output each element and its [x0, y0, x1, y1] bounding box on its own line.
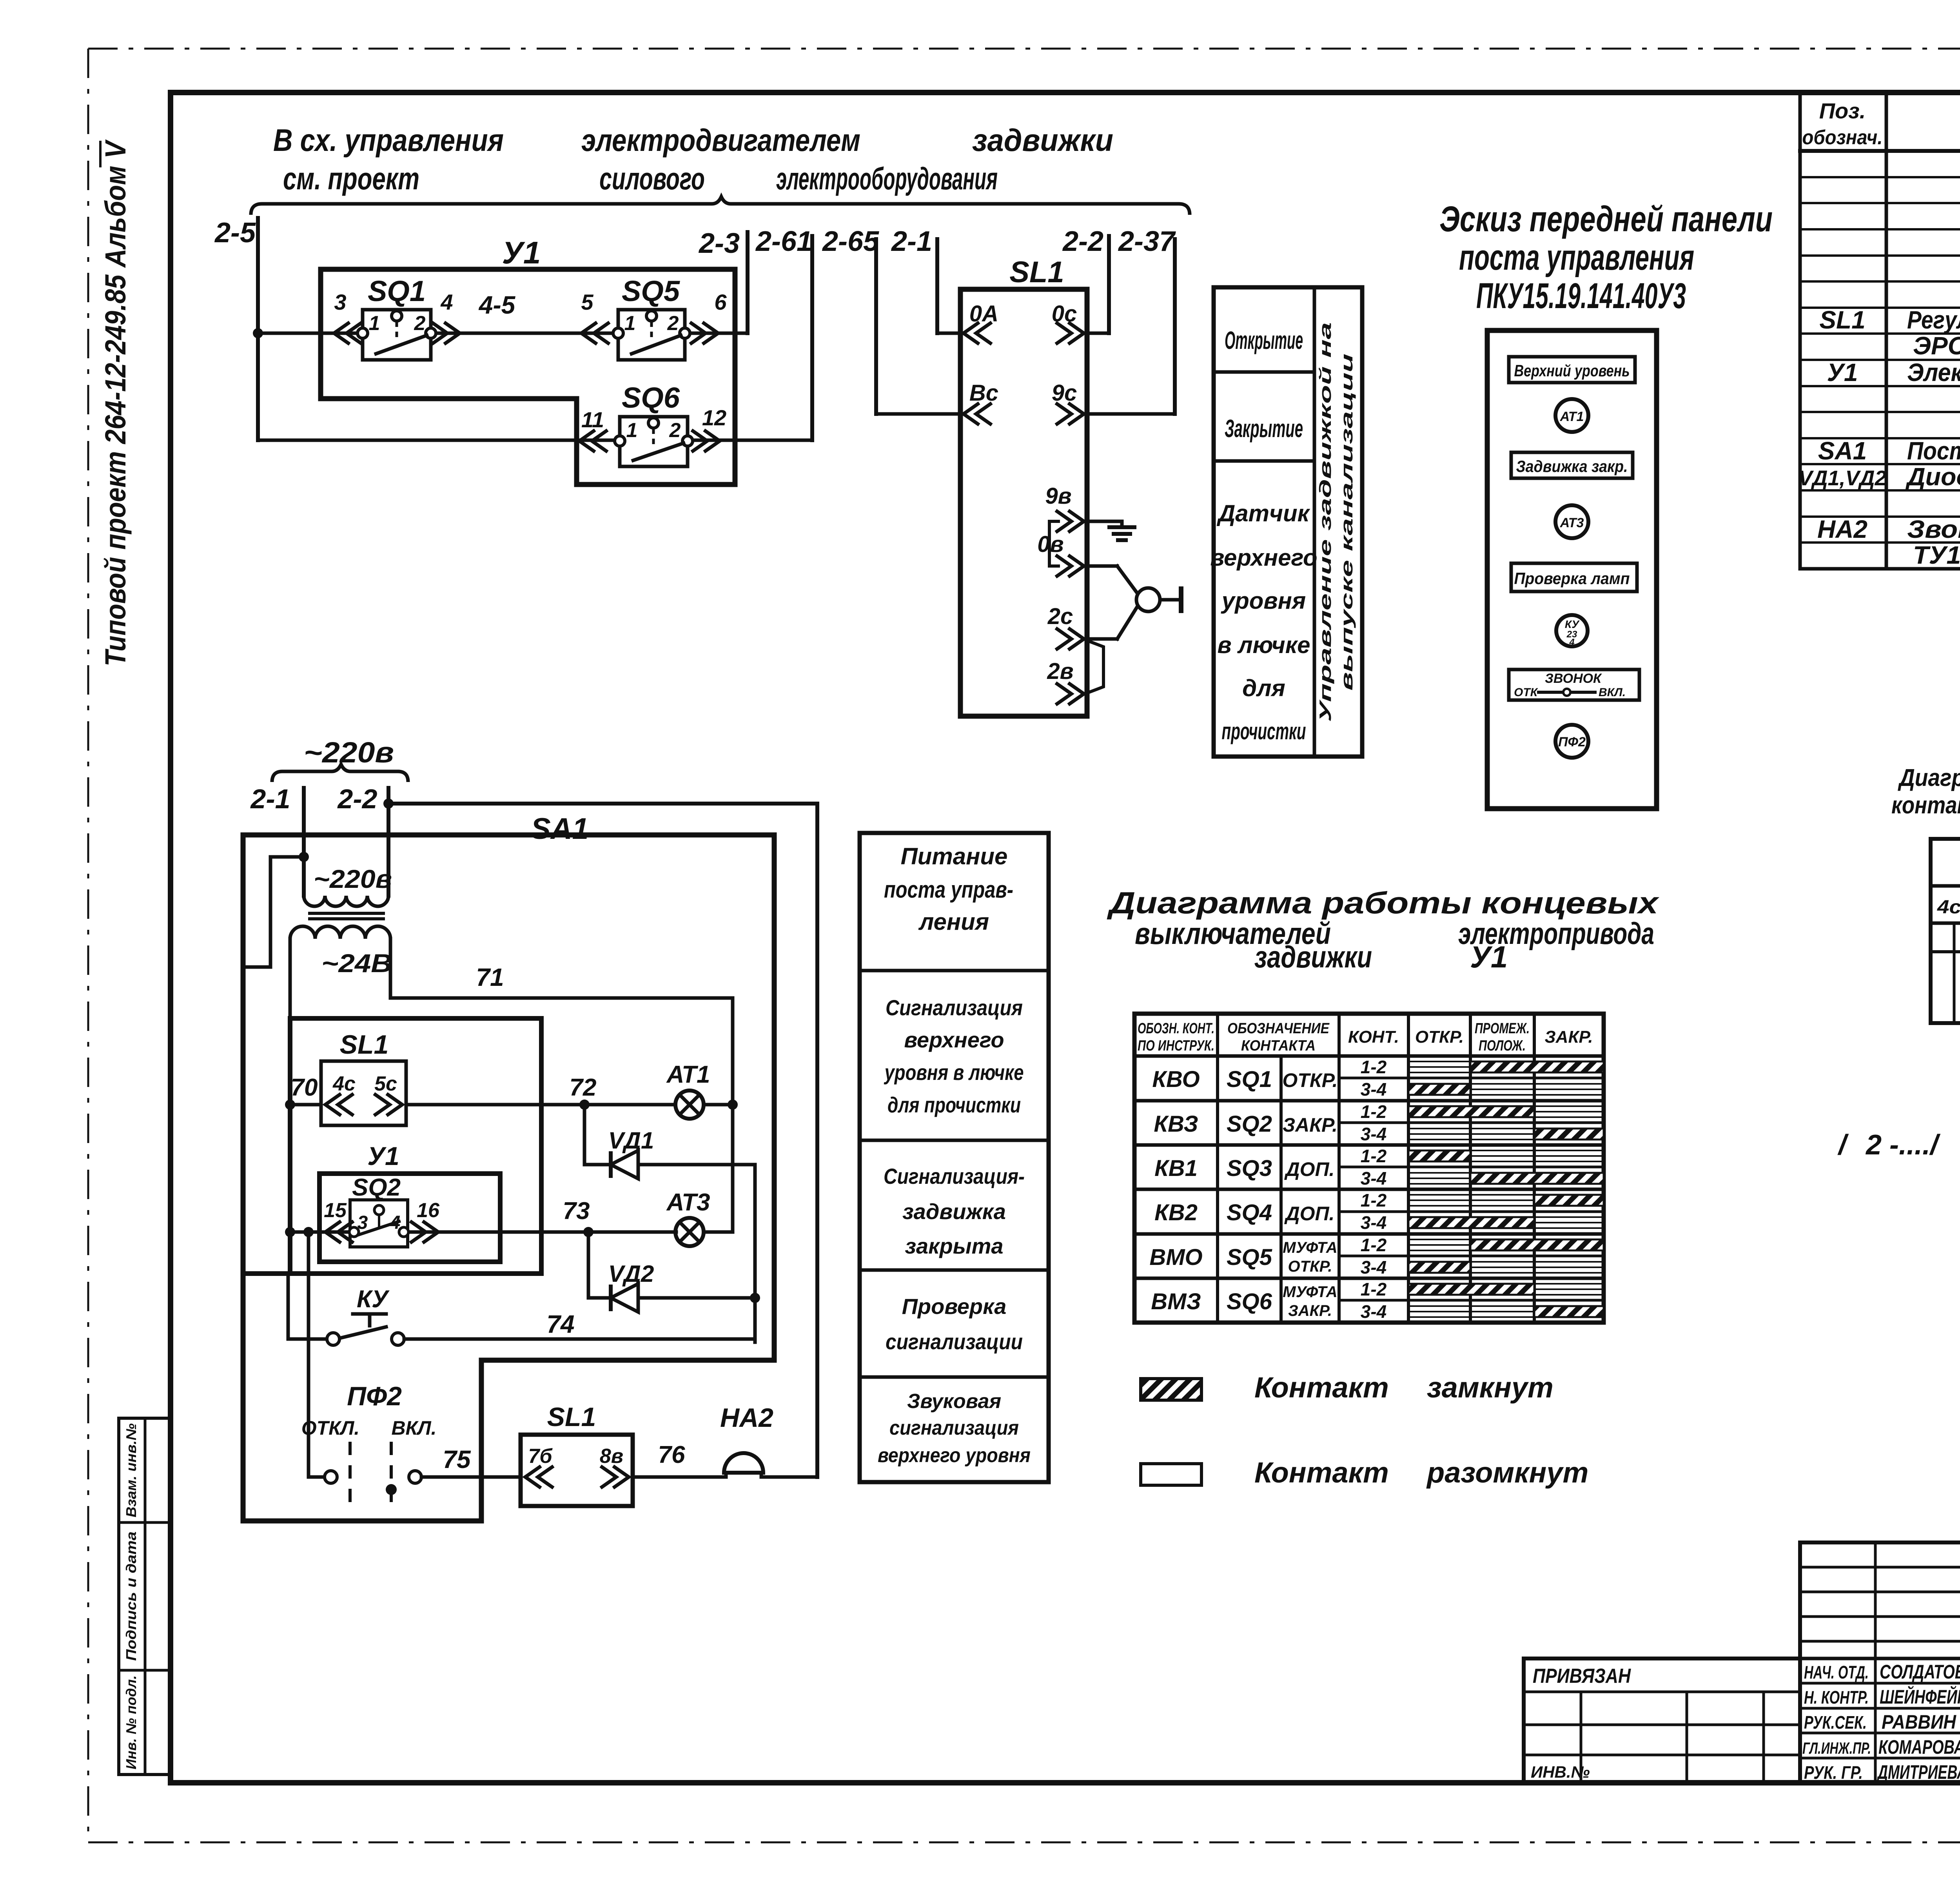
svg-text:Задвижка закр.: Задвижка закр.	[1516, 457, 1628, 475]
title: Диаграмма работы контактов регулятора SL1	[1891, 764, 1960, 839]
svg-text:VД1: VД1	[608, 1127, 654, 1154]
svg-text:КВ1: КВ1	[1154, 1156, 1198, 1181]
svg-text:2: 2	[669, 419, 681, 442]
svg-text:КУ: КУ	[357, 1286, 390, 1313]
svg-text:АТ1: АТ1	[1560, 409, 1584, 424]
svg-text:SQ2: SQ2	[352, 1174, 401, 1201]
svg-text:задвижка: задвижка	[902, 1199, 1006, 1224]
diode VД2	[611, 1284, 638, 1312]
svg-text:задвижки: задвижки	[972, 123, 1113, 158]
parts list table grid	[1800, 93, 1960, 569]
svg-text:73: 73	[563, 1198, 590, 1225]
wire 9c to 2-37 vertical	[1087, 239, 1175, 414]
svg-text:2-61: 2-61	[755, 226, 812, 257]
svg-text:76: 76	[658, 1441, 685, 1468]
SL1 pin 2в	[1047, 659, 1084, 705]
svg-text:Проверка ламп: Проверка ламп	[1514, 569, 1630, 588]
rotated label Управление задвижкой на выпуске канализации	[1316, 322, 1356, 722]
svg-text:КВО: КВО	[1152, 1067, 1200, 1092]
label 74	[546, 1310, 574, 1338]
label 12	[702, 405, 726, 430]
svg-text:8в: 8в	[600, 1445, 623, 1468]
svg-text:РУК. ГР.: РУК. ГР.	[1804, 1762, 1863, 1783]
svg-text:Открытие: Открытие	[1225, 326, 1303, 354]
svg-text:6: 6	[714, 290, 727, 314]
svg-text:SQ4: SQ4	[1227, 1200, 1272, 1225]
label 2-3	[698, 228, 740, 259]
svg-text:SQ2: SQ2	[1227, 1111, 1272, 1137]
wire 2-65 vertical + to Bc	[876, 239, 960, 414]
svg-text:71: 71	[476, 963, 504, 991]
panel lamp ПФ2	[1555, 725, 1588, 758]
label АТ1	[666, 1061, 710, 1088]
svg-text:ВМЗ: ВМЗ	[1151, 1289, 1201, 1314]
svg-text:2-1: 2-1	[891, 226, 932, 257]
svg-text:ПО ИНСТРУК.: ПО ИНСТРУК.	[1138, 1038, 1214, 1054]
svg-text:НА2: НА2	[720, 1403, 773, 1433]
electric actuator У1 enclosure	[321, 269, 735, 484]
svg-text:Н. КОНТР.: Н. КОНТР.	[1804, 1687, 1869, 1707]
svg-text:Поз.: Поз.	[1819, 98, 1866, 123]
svg-text:Электропривод задвижки: Электропривод задвижки	[1907, 358, 1960, 386]
label НА2	[720, 1403, 773, 1433]
svg-text:ОБОЗНАЧЕНИЕ: ОБОЗНАЧЕНИЕ	[1227, 1020, 1330, 1037]
svg-text:1-2: 1-2	[1361, 1101, 1387, 1122]
svg-text:КВ2: КВ2	[1154, 1200, 1198, 1225]
svg-text:Диод Д226-Б ЩБ3.362.002Т: Диод Д226-Б ЩБ3.362.002ТУ-1	[1905, 463, 1960, 491]
contact closed bars	[1408, 1062, 1604, 1317]
svg-text:У1: У1	[1827, 358, 1858, 386]
label 6	[714, 290, 727, 314]
panel label plate: Верхний уровень	[1509, 357, 1635, 383]
svg-text:Диаграмма работы концевы: Диаграмма работы концевых	[1107, 885, 1660, 920]
svg-text:4с: 4с	[332, 1072, 356, 1095]
wire secondary left to inner box	[289, 939, 292, 1018]
svg-text:4: 4	[1569, 637, 1574, 648]
svg-text:4с-5с: 4с-5с	[1937, 897, 1960, 918]
svg-text:1-2: 1-2	[1361, 1146, 1387, 1166]
label 2-37	[1118, 226, 1176, 257]
upper level line	[1931, 950, 1960, 953]
svg-text:ЗАКР.: ЗАКР.	[1288, 1302, 1332, 1319]
margin table (Взам.инв.№ / Подпись и дата / Инв.№ подл.)	[119, 1418, 171, 1775]
svg-text:поста управления: поста управления	[1459, 238, 1694, 278]
parts row SA1	[1818, 437, 1960, 465]
wire 2-1 vertical + to 0A	[937, 239, 960, 333]
label VД1	[608, 1127, 654, 1154]
node АТ1 right junction	[728, 1100, 738, 1110]
svg-text:72: 72	[570, 1074, 597, 1101]
note: index marking explanation	[1837, 1129, 1960, 1274]
wire 75	[421, 1475, 521, 1479]
SQ6 pin labels 1,2	[626, 419, 681, 442]
svg-text:SA1: SA1	[531, 812, 589, 846]
svg-text:3-4: 3-4	[1361, 1079, 1387, 1100]
label 76	[658, 1441, 685, 1468]
svg-text:ВКЛ.: ВКЛ.	[1599, 686, 1626, 699]
parts row ЭРСУ-3	[1913, 332, 1960, 361]
parts row VД1,VД2 diodes	[1798, 463, 1960, 492]
svg-text:ОТК: ОТК	[1514, 686, 1539, 699]
label SL1 (bottom)	[340, 1030, 389, 1060]
svg-text:Взам. инв.№: Взам. инв.№	[123, 1423, 139, 1517]
svg-text:2-65: 2-65	[822, 226, 879, 257]
svg-text:СОЛДАТОВ: СОЛДАТОВ	[1880, 1661, 1960, 1683]
svg-text:ВКЛ.: ВКЛ.	[391, 1417, 436, 1439]
label КУ	[357, 1286, 390, 1313]
svg-text:КУ: КУ	[1565, 618, 1580, 630]
contact table headers	[1138, 1020, 1593, 1054]
svg-text:Звонок ЗВП-220МЧ ~220в: Звонок ЗВП-220МЧ ~220в	[1907, 515, 1960, 543]
svg-text:ПКУ15.19.141.40У3: ПКУ15.19.141.40У3	[1476, 276, 1686, 316]
wire 71 down to АТ1 junction	[731, 998, 735, 1165]
svg-text:16: 16	[417, 1199, 440, 1222]
svg-text:SL1: SL1	[340, 1030, 389, 1060]
svg-text:ПОЛОЖ.: ПОЛОЖ.	[1479, 1038, 1526, 1054]
panel button КУ	[1556, 615, 1588, 648]
svg-text:1: 1	[369, 312, 380, 335]
svg-text:КОНТ.: КОНТ.	[1348, 1027, 1399, 1047]
title block: signatures section	[1800, 1542, 1960, 1783]
parts table headers	[1802, 98, 1960, 149]
svg-text:В сх. управления: В сх. управления	[273, 123, 504, 158]
svg-text:КОМАРОВА: КОМАРОВА	[1878, 1736, 1960, 1758]
svg-text:5: 5	[581, 290, 593, 314]
label SQ6	[622, 381, 680, 414]
svg-text:У1: У1	[367, 1141, 399, 1170]
SL1 contacts table texts	[1937, 853, 1960, 918]
wire 2-2 down + top rail to right	[383, 788, 817, 896]
svg-text:контактов: контактов	[1891, 792, 1960, 819]
label 73	[563, 1198, 590, 1225]
svg-text:уровня в лючке: уровня в лючке	[884, 1060, 1024, 1085]
svg-text:5с: 5с	[374, 1072, 397, 1095]
svg-text:ЗАКР.: ЗАКР.	[1283, 1114, 1338, 1136]
wire 74	[404, 1337, 755, 1341]
legend hatched box = контакт замкнут	[1141, 1371, 1553, 1404]
svg-text:2-1: 2-1	[250, 784, 290, 814]
svg-text:2: 2	[414, 312, 426, 335]
label У1 (bottom)	[367, 1141, 399, 1170]
level switch SL1 contact box (4с-5с)	[321, 1061, 406, 1125]
svg-text:1-2: 1-2	[1361, 1235, 1387, 1255]
svg-text:ОТКР.: ОТКР.	[1282, 1069, 1338, 1091]
label 70	[291, 1074, 318, 1101]
svg-text:ГЛ.ИНЖ.ПР.: ГЛ.ИНЖ.ПР.	[1802, 1739, 1871, 1757]
SL1 pin 9в	[1045, 483, 1084, 532]
svg-text:ШЕЙНФЕЙН: ШЕЙНФЕЙН	[1880, 1686, 1960, 1708]
wire 2-5 vertical	[256, 218, 260, 440]
note: В сх. управления электродвигателем задвижки	[273, 123, 1113, 158]
svg-text:3-4: 3-4	[1361, 1168, 1387, 1189]
transformer primary ~220в	[304, 896, 388, 906]
wire row 70	[290, 1103, 733, 1107]
svg-text:ПРОМЕЖ.: ПРОМЕЖ.	[1475, 1020, 1530, 1037]
title: Эскиз передней панели поста управления ПКУ15.19.141.40У3	[1439, 199, 1773, 316]
SL1 pins 4с,5с	[325, 1072, 402, 1116]
node 72	[579, 1100, 590, 1110]
wire row1 (contacts 3..6)	[258, 332, 748, 335]
svg-text:НАЧ. ОТД.: НАЧ. ОТД.	[1804, 1662, 1869, 1682]
parts row SL1	[1819, 306, 1960, 334]
svg-text:SA1: SA1	[1818, 437, 1867, 465]
connector chevron 3	[334, 322, 362, 344]
svg-text:74: 74	[546, 1310, 574, 1338]
wire secondary right to 71	[390, 939, 733, 998]
label SQ5	[622, 275, 681, 307]
svg-text:АТ1: АТ1	[666, 1061, 710, 1088]
diode VД1	[611, 1150, 638, 1179]
level switch SL1 (76-8в) box	[521, 1435, 633, 1506]
connector chevron 15	[324, 1199, 354, 1243]
svg-text:АТ3: АТ3	[666, 1189, 710, 1216]
control post SA1 enclosure	[243, 835, 774, 1521]
ground at 9в	[1087, 521, 1134, 540]
wire row 15/73	[290, 1230, 676, 1234]
label SQ1	[368, 275, 426, 307]
label 2-61	[755, 226, 812, 257]
inner device box (SL1/У1)	[290, 1018, 541, 1274]
svg-text:КВЗ: КВЗ	[1154, 1111, 1198, 1137]
panel lamp АТ3	[1555, 505, 1588, 538]
label ~220в over supply	[304, 736, 394, 769]
svg-text:SL1: SL1	[547, 1402, 596, 1432]
label SL1	[1009, 256, 1064, 289]
label 2-1 (supply)	[250, 784, 290, 814]
label 2-1	[891, 226, 932, 257]
connector chevron 5	[581, 322, 610, 344]
label SL1 (76-8в)	[547, 1402, 596, 1432]
svg-text:2в: 2в	[1047, 659, 1073, 684]
svg-text:силового: силового	[599, 161, 705, 196]
svg-text:2-2: 2-2	[1062, 226, 1103, 257]
svg-text:Звуковая: Звуковая	[907, 1390, 1001, 1413]
wire 2-3 vertical	[746, 232, 750, 333]
label 75	[443, 1445, 471, 1473]
svg-text:~220в: ~220в	[314, 864, 392, 893]
switch ПФ2 contacts	[325, 1442, 421, 1511]
parts row НА2	[1817, 515, 1960, 543]
svg-text:2с: 2с	[1047, 604, 1073, 629]
brace under ~220в	[272, 764, 408, 782]
svg-text:Проверка: Проверка	[902, 1294, 1007, 1319]
label 11	[581, 407, 604, 432]
lamp АТ1	[675, 1091, 704, 1119]
svg-text:МУФТА: МУФТА	[1283, 1283, 1337, 1301]
svg-text:4-5: 4-5	[478, 291, 516, 319]
label Закрытие	[1225, 414, 1303, 443]
legend: Сигнализация верхнего уровня в лючке для прочистки	[884, 995, 1024, 1117]
svg-text:задвижки: задвижки	[1254, 940, 1372, 974]
panel label plate: Задвижка закр.	[1511, 452, 1633, 478]
svg-text:1-2: 1-2	[1361, 1190, 1387, 1210]
svg-text:для: для	[1242, 675, 1285, 701]
label SQ2	[352, 1174, 401, 1201]
transformer core	[310, 913, 383, 919]
wire 2-1 down to transformer	[302, 788, 306, 896]
svg-text:ОБОЗН. КОНТ.: ОБОЗН. КОНТ.	[1138, 1020, 1214, 1037]
svg-text:2-5: 2-5	[214, 217, 256, 249]
wire row2 to SQ6	[258, 439, 812, 442]
svg-text:ПФ2: ПФ2	[347, 1381, 402, 1411]
float switch on 0в/2с	[1087, 566, 1181, 639]
node 73	[583, 1227, 593, 1237]
svg-text:2-2: 2-2	[337, 784, 377, 814]
svg-text:VД1,VД2: VД1,VД2	[1798, 466, 1886, 490]
svg-text:ления: ления	[918, 909, 989, 935]
bell НА2	[724, 1453, 817, 1477]
SL1 pin 0A	[964, 301, 998, 344]
svg-text:Питание: Питание	[901, 843, 1008, 869]
label 71	[476, 963, 504, 991]
svg-text:Верхний уровень: Верхний уровень	[1514, 361, 1630, 380]
svg-text:75: 75	[443, 1445, 471, 1473]
label Открытие	[1225, 326, 1303, 354]
svg-text:Сигнализация: Сигнализация	[886, 995, 1023, 1020]
label ОТКЛ.	[301, 1417, 359, 1439]
svg-text:70: 70	[291, 1074, 318, 1101]
label ПРИВЯЗАН	[1533, 1665, 1631, 1688]
svg-text:НА2: НА2	[1817, 515, 1867, 543]
svg-text:РАВВИН: РАВВИН	[1882, 1711, 1956, 1733]
svg-text:ОТКР.: ОТКР.	[1288, 1258, 1332, 1275]
svg-text:электродвигателем: электродвигателем	[581, 123, 860, 158]
SL1 pin 0в	[1037, 532, 1084, 577]
svg-text:РУК.СЕК.: РУК.СЕК.	[1804, 1712, 1867, 1733]
SQ1 pin labels 1,2	[369, 312, 426, 335]
legend: Питание поста управ-ления	[884, 843, 1013, 935]
svg-text:ДОП.: ДОП.	[1284, 1203, 1335, 1225]
contact state rails	[1408, 1062, 1604, 1317]
svg-text:Контакт: Контакт	[1254, 1456, 1389, 1489]
svg-text:прочистки: прочистки	[1222, 718, 1306, 744]
title block: left attachment section	[1524, 1658, 1800, 1783]
connector chevron 12	[691, 430, 720, 452]
svg-text:ДМИТРИЕВА: ДМИТРИЕВА	[1877, 1761, 1960, 1783]
label 2-2	[1062, 226, 1103, 257]
svg-text:ПФ2: ПФ2	[1558, 735, 1586, 749]
svg-text:Управление задвижкой на: Управление задвижкой на	[1316, 322, 1334, 722]
diode VД1 branch	[584, 1105, 755, 1342]
diode VД2 branch	[588, 1232, 760, 1303]
svg-text:9в: 9в	[1045, 483, 1071, 509]
SQ2 pin labels 3,4	[358, 1212, 401, 1233]
connector chevron 11	[579, 430, 608, 452]
SL1 pin 0c	[1052, 301, 1084, 344]
svg-text:Эскиз передней панели: Эскиз передней панели	[1439, 199, 1773, 239]
label 72	[570, 1074, 597, 1101]
svg-text:сигнализация: сигнализация	[889, 1417, 1019, 1439]
svg-text:VД2: VД2	[608, 1261, 654, 1287]
svg-text:SQ6: SQ6	[1227, 1289, 1272, 1314]
svg-text:для прочистки: для прочистки	[887, 1092, 1021, 1117]
svg-text:в лючке: в лючке	[1217, 632, 1310, 658]
svg-text:~24В: ~24В	[321, 949, 392, 978]
panel outline	[1487, 330, 1657, 809]
SL1 pin 2с	[1047, 604, 1084, 650]
signature rows	[1802, 1661, 1960, 1783]
parts row ТУ16-739-059-75	[1913, 541, 1960, 569]
svg-text:2 -..../: 2 -..../	[1865, 1129, 1941, 1161]
svg-text:закрыта: закрыта	[905, 1234, 1003, 1258]
contact table 1-2/3-4 labels	[1361, 1057, 1387, 1322]
transformer secondary ~24В	[290, 926, 390, 939]
svg-text:SL1: SL1	[1819, 306, 1865, 334]
svg-text:Вс: Вс	[969, 380, 998, 406]
svg-text:выпуске канализации: выпуске канализации	[1338, 354, 1356, 691]
label 2-65	[822, 226, 879, 257]
connector chevron 16	[410, 1199, 440, 1243]
wire 0c to 2-2 vertical	[1087, 236, 1109, 333]
svg-text:АТ3: АТ3	[1560, 515, 1584, 530]
svg-text:15: 15	[324, 1199, 347, 1222]
svg-text:Регулятор-сигнализатор уровн: Регулятор-сигнализатор уровня	[1907, 306, 1960, 334]
SQ5 pin labels 1,2	[624, 312, 679, 335]
svg-text:3-4: 3-4	[1361, 1257, 1387, 1277]
SL1 pin 9с	[1052, 380, 1084, 425]
svg-text:верхнего уровня: верхнего уровня	[878, 1444, 1031, 1467]
svg-text:3-4: 3-4	[1361, 1212, 1387, 1233]
svg-text:SL1: SL1	[1009, 256, 1064, 289]
signal legend box	[860, 833, 1049, 1482]
wire АТ3 right to rail	[704, 1165, 733, 1232]
label 5	[581, 290, 593, 314]
function legend box	[1214, 287, 1362, 757]
switch SQ2	[349, 1200, 408, 1247]
svg-text:1-2: 1-2	[1361, 1279, 1387, 1299]
svg-text:ТУ16-739-059-75: ТУ16-739-059-75	[1913, 541, 1960, 569]
svg-text:ЭРСУ-3: ЭРСУ-3	[1913, 332, 1960, 360]
node 15-row left	[285, 1227, 295, 1237]
contact diagram table grid	[1134, 1014, 1604, 1323]
svg-text:ДОП.: ДОП.	[1284, 1158, 1335, 1180]
node 70 on rail	[285, 1100, 295, 1110]
svg-text:см. проект: см. проект	[283, 161, 419, 196]
svg-text:4: 4	[440, 290, 453, 314]
svg-text:Инв. № подл.: Инв. № подл.	[123, 1675, 139, 1769]
svg-text:SQ3: SQ3	[1227, 1156, 1272, 1181]
svg-text:КОНТАКТА: КОНТАКТА	[1241, 1038, 1316, 1054]
jumper 2с-2в	[1087, 641, 1103, 693]
svg-text:Диаграмма: Диаграмма	[1898, 764, 1960, 791]
svg-text:ИНВ.№: ИНВ.№	[1531, 1763, 1590, 1781]
right rail down to bell НА2	[815, 804, 819, 1477]
svg-text:9с: 9с	[1052, 380, 1077, 406]
contact table row labels	[1149, 1067, 1338, 1319]
label ВКЛ.	[391, 1417, 436, 1439]
label Датчик верхнего уровня в лючке для прочистки	[1210, 500, 1317, 744]
svg-text:3: 3	[334, 290, 346, 314]
svg-text:SQ5: SQ5	[1227, 1245, 1272, 1270]
svg-text:SQ1: SQ1	[1227, 1067, 1272, 1092]
svg-text:ВМО: ВМО	[1149, 1245, 1202, 1270]
label ИНВ.№	[1531, 1763, 1590, 1781]
svg-text:верхнего: верхнего	[904, 1027, 1004, 1052]
inner box tail to SA1 left edge	[246, 1271, 290, 1276]
SL1 contacts table	[1931, 839, 1960, 1023]
margin stamp text: Типовой проект 264-12-249.85 Альбом V	[99, 139, 132, 666]
svg-text:сигнализации: сигнализации	[886, 1329, 1023, 1354]
limit switch SQ1	[358, 310, 436, 360]
svg-text:ЗАКР.: ЗАКР.	[1544, 1027, 1593, 1047]
legend: Сигнализация-задвижка закрыта	[884, 1164, 1025, 1258]
limit switch SQ5	[613, 310, 690, 360]
label 3	[334, 290, 346, 314]
node junction 2-5 / row wire	[253, 328, 263, 338]
panel lamp АТ1	[1555, 399, 1588, 432]
label 2-2 (supply)	[337, 784, 377, 814]
wire 76 to bell	[633, 1475, 726, 1479]
